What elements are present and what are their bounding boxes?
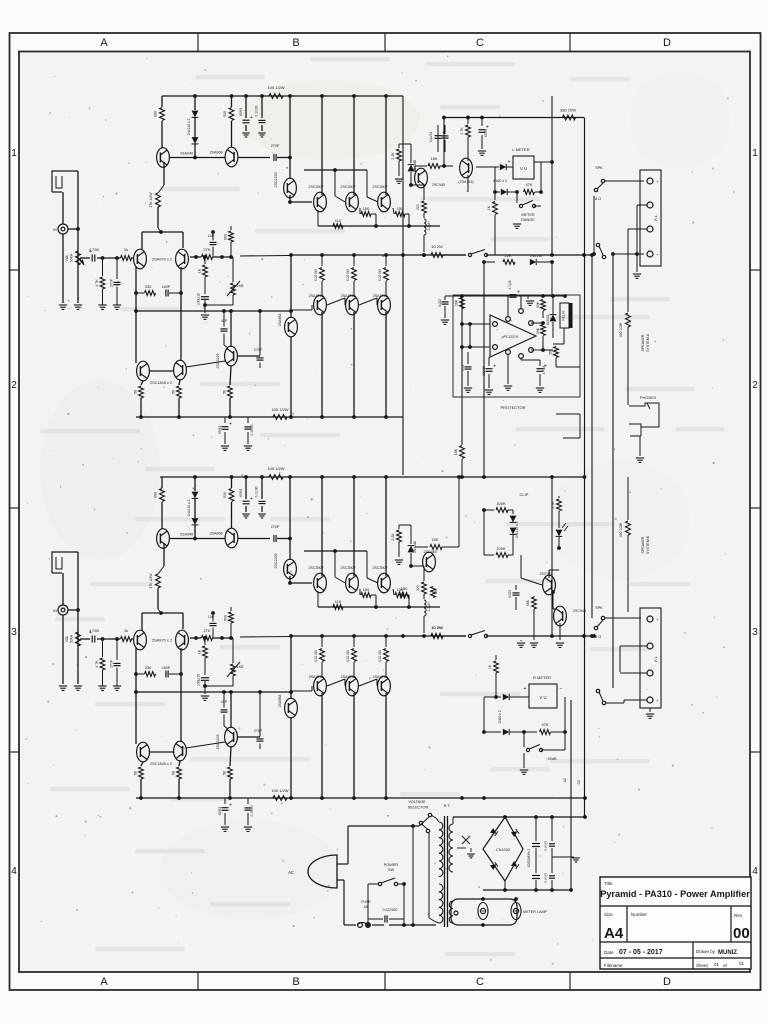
diode 1N60 a ch1 xyxy=(476,164,513,170)
svg-text:1.2µH: 1.2µH xyxy=(427,602,431,612)
svg-text:+: + xyxy=(493,364,496,370)
wire PSU minus up xyxy=(563,700,581,890)
sheet label xyxy=(696,963,709,968)
wire PNP collector drop x=386 ch1 xyxy=(385,312,387,417)
wire Vas column ch1 xyxy=(289,96,291,179)
resistor 56K clip xyxy=(526,596,536,640)
ground meter range ch1 xyxy=(513,206,521,228)
svg-text:0.22 5W: 0.22 5W xyxy=(314,269,318,281)
transistor 2SC945 clip c xyxy=(554,606,586,626)
svg-text:220: 220 xyxy=(416,204,420,210)
RCA input jack ch1 xyxy=(53,224,68,234)
resistor 150 emitter b ch2 xyxy=(393,587,409,607)
wire terminal3 tap xyxy=(628,229,647,262)
svg-text:2SA968: 2SA968 xyxy=(209,532,222,536)
relay coil xyxy=(560,303,573,328)
svg-text:2SC3907: 2SC3907 xyxy=(341,185,356,189)
resistors 56 emitters ch2 xyxy=(134,747,233,798)
svg-text:VOL: VOL xyxy=(65,254,69,261)
label 1N60x2 ch2 xyxy=(498,710,502,723)
svg-text:Δ O: Δ O xyxy=(595,197,601,201)
svg-text:1.2µH: 1.2µH xyxy=(427,221,431,231)
capacitor 10P lag ch1 xyxy=(208,230,217,257)
svg-text:0.22 5W: 0.22 5W xyxy=(378,650,382,662)
transistor 2SC3907 #3 ch2 xyxy=(378,573,391,593)
svg-text:110: 110 xyxy=(335,599,342,604)
wire terminal4 tap B xyxy=(606,636,647,703)
svg-text:15K: 15K xyxy=(454,448,458,455)
svg-text:10000/63 x 2: 10000/63 x 2 xyxy=(527,849,531,868)
capacitor 270P interstage ch1 xyxy=(271,144,292,161)
svg-text:0.22 5W: 0.22 5W xyxy=(346,269,350,281)
svg-text:47K: 47K xyxy=(525,182,532,187)
grounds clip xyxy=(517,623,564,647)
svg-text:4.7K: 4.7K xyxy=(95,660,99,668)
resistor 2.2K bias ch2 xyxy=(391,525,403,564)
svg-text:47/63: 47/63 xyxy=(239,108,243,117)
rev label xyxy=(734,913,743,918)
wire pin7 net xyxy=(531,349,543,351)
svg-text:0.022: 0.022 xyxy=(508,590,512,598)
trimmer 1KB ch2 xyxy=(203,638,244,688)
svg-text:160P: 160P xyxy=(162,285,171,289)
left band divider 2|3 xyxy=(10,507,20,509)
label R METER xyxy=(533,675,551,680)
svg-text:+: + xyxy=(524,686,527,692)
transistor 2SA1516 #1 ch2 xyxy=(314,676,327,696)
top zone letter A xyxy=(100,37,108,49)
svg-text:+: + xyxy=(229,803,232,809)
svg-text:2SA988: 2SA988 xyxy=(278,695,282,708)
svg-text:4: 4 xyxy=(11,866,17,877)
resistor 560 1/2W relay xyxy=(549,347,559,368)
svg-text:4.7/50: 4.7/50 xyxy=(89,248,99,252)
uPC pin circles xyxy=(493,309,534,359)
capacitor 4.7/16 protector xyxy=(521,358,547,392)
transistor 2SC1845x2 b ch1 xyxy=(174,360,187,380)
svg-text:2SA940: 2SA940 xyxy=(180,533,193,537)
transistor 2SC1845x2 b ch2 xyxy=(174,741,187,761)
svg-text:600: 600 xyxy=(224,234,228,240)
wire relay bottom xyxy=(541,328,564,352)
svg-text:10 2W: 10 2W xyxy=(431,625,443,630)
transformer R.T. xyxy=(444,804,451,808)
wire jack to pot ch2 xyxy=(63,552,80,684)
svg-text:220: 220 xyxy=(416,585,420,591)
diode 1N4001 relay xyxy=(546,296,556,338)
resistor 47K meter ch1 xyxy=(524,182,535,194)
resistor 27K NFB ch1 xyxy=(202,247,213,259)
left band divider 1|2 xyxy=(10,269,20,271)
ground input shield ch1 xyxy=(59,305,67,309)
title block row lines xyxy=(600,906,751,958)
label L METER ch1 xyxy=(512,147,529,152)
svg-text:27K: 27K xyxy=(203,628,210,633)
bottom zone letter C xyxy=(476,976,484,988)
svg-text:100 1/2W: 100 1/2W xyxy=(271,407,288,412)
diode 1N60 b ch1 xyxy=(495,189,517,195)
scan blotches xyxy=(40,70,730,920)
svg-text:SPEAKER: SPEAKER xyxy=(641,334,645,351)
svg-text:4.7/16: 4.7/16 xyxy=(542,365,546,374)
label 1N60x2 ch1 xyxy=(493,179,507,183)
svg-text:01: 01 xyxy=(739,961,745,966)
wire x=444 drop xyxy=(443,118,445,167)
svg-text:RANGE: RANGE xyxy=(521,218,535,222)
svg-text:1N4148: 1N4148 xyxy=(530,254,542,258)
svg-text:510: 510 xyxy=(223,492,227,498)
svg-text:270P: 270P xyxy=(110,278,114,287)
svg-text:R METER: R METER xyxy=(533,675,551,680)
wire bus to terminal ch1 xyxy=(611,252,644,256)
svg-text:2SA1516: 2SA1516 xyxy=(341,294,356,298)
switch SPK B xyxy=(594,606,604,639)
svg-text:SELECTOR: SELECTOR xyxy=(408,806,429,810)
svg-text:100µ/16: 100µ/16 xyxy=(197,674,201,686)
resistor 4.7K ch1a xyxy=(460,116,470,161)
svg-text:50KA: 50KA xyxy=(70,634,74,643)
svg-text:270P: 270P xyxy=(271,144,280,148)
svg-text:MUNIZ: MUNIZ xyxy=(718,950,737,956)
resistor 22K protector xyxy=(503,253,515,264)
fuse 5A xyxy=(357,900,371,927)
svg-text:Filename: Filename xyxy=(604,963,623,968)
wire terminal3 tap B xyxy=(620,672,647,674)
left zone number 2 xyxy=(11,380,17,391)
resistor 0.22 5W #2 ch1 xyxy=(346,255,356,297)
switch voltage selector xyxy=(419,813,432,832)
switch speaker relay contact ch2 xyxy=(468,631,487,638)
svg-text:2SC2229: 2SC2229 xyxy=(216,354,220,369)
resistor 110 emitter c ch2 xyxy=(333,599,343,609)
resistor 10 2W bus ch2 xyxy=(431,625,466,638)
wire collector drop x=354 ch2 xyxy=(353,477,355,576)
svg-text:100 1/2W: 100 1/2W xyxy=(267,85,284,90)
transistor 2SA988 ch1 xyxy=(278,314,297,337)
svg-text:2SC945: 2SC945 xyxy=(573,609,586,613)
capacitor 0.022 protector xyxy=(438,296,449,324)
resistor 1K NFB ch1 xyxy=(198,257,208,294)
svg-text:50K: 50K xyxy=(536,327,540,334)
transformer secondary winding xyxy=(449,817,453,923)
svg-text:47K: 47K xyxy=(541,722,548,727)
ground PSU xyxy=(552,857,580,862)
svg-text:330: 330 xyxy=(145,665,152,670)
resistor 15K clip feed xyxy=(454,446,464,479)
svg-text:VOLTAGE: VOLTAGE xyxy=(408,800,426,804)
capacitor 270P interstage ch2 xyxy=(271,525,292,542)
label PROTECTOR xyxy=(500,405,525,410)
resistor 0.22 5W #3 ch2 xyxy=(378,636,388,678)
svg-text:1KB: 1KB xyxy=(237,665,244,669)
wire speaker line x=613 xyxy=(612,254,614,688)
right zone number 4 xyxy=(752,866,758,877)
label 2SC3907 #1 ch2 xyxy=(309,566,324,570)
wire protector top rail xyxy=(484,294,567,305)
drawn by value xyxy=(718,950,737,956)
LED clip xyxy=(556,523,568,548)
svg-text:IN: IN xyxy=(53,609,57,613)
transistor 2SA968 ch2 xyxy=(209,528,237,548)
RCA input jack ch2 xyxy=(53,605,68,615)
wire collector drop x=322 ch1 xyxy=(321,96,323,195)
label METER RANGE ch1 xyxy=(521,213,535,222)
resistor 2.2K bias ch1 xyxy=(391,144,403,183)
junction dots rail ch2 xyxy=(193,475,388,479)
bottom band divider A|B xyxy=(197,972,199,990)
wire emitter bus ch2 xyxy=(318,591,440,609)
wire SPK A common xyxy=(592,196,596,256)
svg-text:2SC945: 2SC945 xyxy=(432,183,445,187)
svg-text:µPC1237H: µPC1237H xyxy=(502,335,519,339)
svg-text:100 1/2W: 100 1/2W xyxy=(271,788,288,793)
wire phones ground xyxy=(630,427,644,462)
svg-text:50KA: 50KA xyxy=(70,253,74,262)
wire meter feed x=552 xyxy=(551,96,553,255)
trimmer 1KB ch1 xyxy=(203,257,244,307)
switch SPK B lower pole xyxy=(596,689,605,704)
transistor 2SC1845x2 a ch1 xyxy=(137,361,150,381)
svg-text:0.1/100: 0.1/100 xyxy=(544,841,548,851)
capacitor 270P input ch1 xyxy=(110,258,122,309)
svg-text:R.T.: R.T. xyxy=(444,804,451,808)
svg-text:(2SA733): (2SA733) xyxy=(458,180,473,184)
phones jack xyxy=(629,396,659,427)
wire input line ch2 xyxy=(80,637,133,641)
svg-text:SPK: SPK xyxy=(595,606,603,610)
svg-text:D: D xyxy=(663,976,671,988)
svg-text:56: 56 xyxy=(172,390,176,394)
svg-text:0.1/100: 0.1/100 xyxy=(255,486,259,497)
svg-text:150: 150 xyxy=(363,587,370,592)
svg-text:2SC3907: 2SC3907 xyxy=(309,566,324,570)
resistor 100 1/2W rail ch2 xyxy=(267,466,284,479)
capacitor 43P ch1 xyxy=(221,311,229,348)
svg-text:150: 150 xyxy=(397,206,404,211)
wire protector drive ch1 xyxy=(484,261,552,263)
resistor 330 ch2 xyxy=(429,569,438,598)
wire output bus ch1 to speaker xyxy=(486,253,594,257)
svg-text:C: C xyxy=(476,976,484,988)
svg-text:2SC945: 2SC945 xyxy=(424,550,437,554)
svg-text:2SA968: 2SA968 xyxy=(209,151,222,155)
svg-text:1k: 1k xyxy=(124,628,128,633)
svg-text:CLIP: CLIP xyxy=(520,492,529,497)
wire SPK B to terminal xyxy=(605,617,641,619)
resistor 50K a protector xyxy=(536,299,545,318)
wire vas column low ch1 xyxy=(289,253,293,417)
transistor 2SC2229 ch2 xyxy=(216,727,237,749)
svg-text:100K: 100K xyxy=(496,501,506,506)
label 2SA1516 #2 ch2 xyxy=(341,675,356,679)
resistor 510 ch1 xyxy=(223,96,234,147)
svg-text:27K 1/2W: 27K 1/2W xyxy=(149,573,153,589)
capacitor 0.1/100 V- ch1 xyxy=(244,417,254,450)
wire main vertical x=585 xyxy=(583,118,587,818)
svg-text:2SC1845 x 2: 2SC1845 x 2 xyxy=(150,762,172,766)
transistor 2SA940 ch1 xyxy=(157,148,194,168)
svg-text:600: 600 xyxy=(154,111,158,117)
svg-text:1K: 1K xyxy=(487,205,491,210)
diodes 1N4148x2 clip xyxy=(510,510,519,555)
svg-text:4: 4 xyxy=(752,866,758,877)
svg-text:Date: Date xyxy=(604,950,614,955)
capacitor 4.7/50 input ch2 xyxy=(89,629,99,643)
svg-text:2SC1845 x 2: 2SC1845 x 2 xyxy=(150,381,172,385)
wire pin8 net xyxy=(531,322,543,324)
capacitor 4.7u/6 protector top xyxy=(508,280,521,316)
svg-text:2SA1516: 2SA1516 xyxy=(373,675,388,679)
svg-text:330: 330 xyxy=(145,284,152,289)
left band divider 3|4 xyxy=(10,751,20,753)
svg-text:R L: R L xyxy=(654,656,658,661)
wire V+ rail segment to output stage ch1 xyxy=(444,117,584,119)
switch SPK A lower pole xyxy=(596,243,605,258)
transistor 2SC2239 ch1 xyxy=(274,173,296,198)
wire SPK B common xyxy=(592,634,596,638)
svg-text:1K: 1K xyxy=(198,649,202,654)
capacitor 220/16 protector xyxy=(482,357,496,394)
wire vas column low ch2 xyxy=(289,634,293,798)
svg-text:380 10W: 380 10W xyxy=(560,108,576,113)
wire PNP collector drop x=322 ch2 xyxy=(321,693,323,798)
switch METER RANGE ch1 xyxy=(517,192,541,208)
left zone number 4 xyxy=(11,866,17,877)
diode 1N60 a ch2 xyxy=(484,694,529,700)
diode 1N4148 protector xyxy=(530,254,554,296)
svg-text:2: 2 xyxy=(11,380,17,391)
svg-text:+: + xyxy=(250,115,253,121)
label 2SA1516 #3 ch2 xyxy=(373,675,388,679)
svg-text:1N4148 x 2: 1N4148 x 2 xyxy=(187,499,191,516)
wire V- rail ch1 xyxy=(136,416,403,418)
svg-text:150: 150 xyxy=(401,586,408,591)
svg-text:56: 56 xyxy=(223,771,227,775)
wire driver bias chain ch1 xyxy=(288,168,378,204)
filename label xyxy=(604,963,623,968)
meter VU box ch1 xyxy=(513,156,534,179)
wire relay contact out xyxy=(556,367,580,438)
label 2SC3907 #2 ch1 xyxy=(341,185,356,189)
wire PNP collector drop x=354 ch2 xyxy=(353,693,355,798)
svg-text:1: 1 xyxy=(11,148,17,159)
bottom zone letter B xyxy=(292,976,299,988)
svg-text:1K: 1K xyxy=(198,268,202,273)
label 2SA1516 #1 ch1 xyxy=(309,294,324,298)
svg-text:2SA1516: 2SA1516 xyxy=(309,294,324,298)
capacitor 270P vas ch1 xyxy=(254,311,264,368)
label 2SC3907 #1 ch1 xyxy=(309,185,324,189)
transistor 2SA733 ch1 xyxy=(458,158,473,184)
rev 00 xyxy=(733,925,750,942)
wire AC neutral xyxy=(344,880,436,925)
svg-text:Title: Title xyxy=(604,881,613,886)
label CLIP xyxy=(520,492,529,497)
transistor 2SC3907 #1 ch2 xyxy=(314,573,327,593)
title label xyxy=(604,881,613,886)
capacitor 47/63 V- ch2 xyxy=(218,798,232,831)
svg-text:4.7K: 4.7K xyxy=(95,279,99,287)
ground input pot ch2 xyxy=(74,686,82,690)
wire bridge minus rail xyxy=(483,881,573,892)
right band divider 3|4 xyxy=(750,751,761,753)
transistor 2SC945 clip b xyxy=(540,572,556,595)
wire feedback x=592 xyxy=(591,255,593,618)
size A4 xyxy=(604,925,624,942)
svg-text:2SC3907: 2SC3907 xyxy=(373,566,388,570)
capacitor 0.022/630 xyxy=(368,908,404,923)
svg-text:2SC2239: 2SC2239 xyxy=(274,173,278,188)
svg-text:100K: 100K xyxy=(496,546,506,551)
wire x=484 drop xyxy=(482,260,486,479)
resistor 0.22 5W #1 ch1 xyxy=(314,255,324,297)
power switch loop xyxy=(366,884,406,927)
label 2SA1516 #1 ch2 xyxy=(309,675,324,679)
wire first stage link ch1 xyxy=(169,157,270,159)
svg-text:1N4001: 1N4001 xyxy=(546,314,550,325)
wire first stage link ch2 xyxy=(169,538,270,540)
svg-text:+: + xyxy=(508,159,511,165)
wire NFB node ch2 xyxy=(190,636,233,640)
svg-text:220/16: 220/16 xyxy=(482,366,486,376)
wire supply drop x=403 ch1 xyxy=(402,96,404,475)
wire terminal2 tap B xyxy=(620,646,647,672)
wire driver bias chain ch2 xyxy=(288,549,378,585)
resistor 150 emitter b ch1 xyxy=(393,206,409,226)
capacitor 100u/16 NFB ch2 xyxy=(197,674,210,701)
meter polarity marks ch1 xyxy=(508,159,540,166)
resistor 10 2W ch2 xyxy=(431,625,466,638)
top zone letter D xyxy=(663,37,671,49)
wire output bus ch2 to speaker xyxy=(486,634,594,638)
capacitor 10000/63 a xyxy=(527,817,540,890)
svg-text:0.1/100: 0.1/100 xyxy=(544,873,548,883)
svg-text:Rev: Rev xyxy=(734,913,743,918)
svg-text:SPK: SPK xyxy=(595,166,603,170)
transistor 2SA970x2 b ch2 xyxy=(176,630,189,650)
transistor 2SA970x2 a ch2 xyxy=(134,630,147,650)
transistor 2SA1516 #3 ch2 xyxy=(378,676,391,696)
resistor 1K NFB ch2 xyxy=(198,638,208,675)
ground -20dB xyxy=(520,753,528,774)
svg-text:R L: R L xyxy=(654,215,658,220)
wire collector drop x=354 ch1 xyxy=(353,96,355,195)
resistor 600 NFB ch2 xyxy=(224,607,234,640)
svg-text:2.7K: 2.7K xyxy=(551,501,555,509)
resistor 150 emitter a ch2 xyxy=(360,587,376,607)
protector enclosure box xyxy=(453,295,580,397)
capacitor 0.1/100 V- ch2 xyxy=(244,798,254,831)
junction dots V- ch1 xyxy=(139,415,388,419)
transistor 2SA970x2 a ch1 xyxy=(134,249,147,269)
svg-text:15K: 15K xyxy=(430,156,437,161)
svg-text:3: 3 xyxy=(752,627,758,638)
title block col lines xyxy=(627,906,731,969)
svg-text:SYSTEM A: SYSTEM A xyxy=(646,333,650,352)
wire 2SC2229 links ch2 xyxy=(186,690,260,748)
svg-text:510: 510 xyxy=(223,111,227,117)
capacitor 10P lag ch2 xyxy=(208,611,217,638)
svg-text:1KB: 1KB xyxy=(237,284,244,288)
transistor 2SC3907 #2 ch1 xyxy=(346,192,359,212)
resistor 390 1/2W phones xyxy=(619,262,630,405)
svg-text:+: + xyxy=(229,422,232,428)
terminal block speaker A xyxy=(640,170,661,266)
svg-text:3: 3 xyxy=(11,627,17,638)
wire 2SA940 emitter chain ch2 xyxy=(149,543,164,613)
svg-text:160P: 160P xyxy=(162,666,171,670)
top band divider B|C xyxy=(384,33,386,52)
